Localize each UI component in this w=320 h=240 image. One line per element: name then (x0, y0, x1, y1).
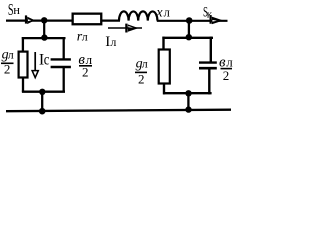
wire right loop lower-right vertical (208, 68, 210, 94)
node dot left loop bottom (39, 89, 45, 95)
wire stub right loop to bottom rail (187, 93, 189, 109)
wire left loop lower-left vertical (22, 78, 24, 93)
svg-text:2: 2 (4, 62, 10, 77)
current arrow Iл crossbar (125, 24, 127, 33)
wire right loop upper-right vertical (210, 37, 212, 63)
svg-text:2: 2 (223, 68, 230, 83)
node dot right loop bottom (185, 90, 191, 96)
svg-text:2: 2 (82, 65, 89, 80)
wire left loop lower-right vertical (63, 67, 65, 93)
capacitor вл/2 left top plate (51, 58, 71, 60)
current arrow Iс head (32, 71, 38, 78)
svg-text:л: л (142, 57, 148, 71)
resistor gл/2 (right conductance) (159, 50, 170, 84)
wire left loop upper-left vertical (22, 37, 24, 52)
current arrow Iл shaft (108, 27, 142, 29)
svg-text:н: н (13, 3, 20, 17)
node junction dot top-right (186, 17, 193, 24)
resistor rл (73, 14, 102, 25)
fraction bar gл/2 right (135, 71, 147, 73)
node dot right loop top (186, 34, 192, 40)
svg-text:л: л (82, 29, 88, 43)
capacitor вл/2 right bottom plate (199, 67, 217, 70)
capacitor вл/2 right top plate (199, 61, 217, 63)
wire right loop lower-left vertical (163, 83, 165, 95)
left shunt loop top wire (22, 37, 66, 39)
inductor xл (119, 11, 157, 20)
node dot bottom rail right (185, 106, 191, 112)
svg-text:л: л (110, 35, 116, 49)
left loop bottom wire (22, 91, 65, 93)
svg-text:л: л (8, 48, 14, 62)
svg-text:к: к (207, 8, 213, 20)
wire right loop upper-left vertical (162, 37, 164, 50)
current arrow Iл head (128, 24, 139, 31)
power-flow arrow Sк crossbar (210, 15, 212, 24)
fraction bar gл/2 left (1, 62, 14, 64)
wire top horizontal bus right part (157, 20, 228, 22)
power-flow arrow Sн crossbar (25, 15, 27, 23)
wire top horizontal bus left part (6, 20, 120, 22)
wire stub left loop to bottom rail (41, 92, 43, 111)
svg-text:л: л (164, 6, 170, 20)
resistor gл/2 (left conductance) (19, 52, 28, 78)
svg-text:x: x (155, 6, 163, 21)
svg-text:c: c (44, 51, 50, 69)
bottom rail wire (6, 110, 231, 112)
wire stub top-left node to left shunt loop (43, 20, 45, 38)
svg-text:2: 2 (138, 72, 145, 87)
wire stub top-right node to right shunt loop (188, 21, 190, 38)
node dot left loop top (41, 34, 47, 40)
power-flow arrow Sн head (27, 17, 35, 25)
fraction bar вл/2 right (221, 68, 233, 70)
wire left loop upper-right vertical (63, 37, 65, 60)
node dot bottom rail left (39, 108, 46, 115)
current arrow Iс shaft (34, 52, 36, 71)
power-flow arrow Sк head (212, 17, 224, 25)
node junction dot top-left (41, 17, 47, 23)
capacitor вл/2 left bottom plate (51, 66, 71, 68)
right loop bottom wire (163, 92, 212, 94)
right shunt loop top wire (162, 37, 213, 39)
fraction bar вл/2 left (79, 65, 92, 67)
